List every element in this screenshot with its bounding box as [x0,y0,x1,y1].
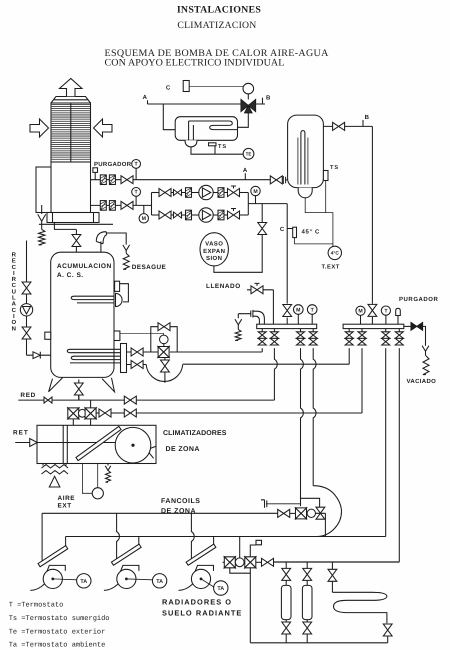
valve on supply pipe [121,176,133,184]
valve ACS primary return [131,361,143,369]
vent elbow on tank top [96,232,106,253]
svg-text:VASO: VASO [205,241,223,248]
radiator supply line [274,561,400,563]
recirculation valve lower [22,327,31,339]
AHU control pump circle [82,464,97,494]
condensate drain [107,464,109,466]
radiator group left 3-way [224,557,235,568]
sensor TS bracket on tank [323,171,328,181]
fancoil zone valve [278,509,290,517]
fancoil unit 1 supply tap [41,513,43,561]
wire down to expansion vessel [214,204,262,273]
fancoil unit 3 return tap [213,537,215,548]
thermometer T supply [135,168,137,179]
valve above manifold 1 [283,305,292,317]
fancoil unit 2 supply tap [117,513,120,561]
svg-text:VACIADO: VACIADO [407,378,437,385]
svg-text:ACUMULACION: ACUMULACION [57,263,112,270]
wire 3-way to exchanger right port [238,113,249,128]
svg-text:LLENADO: LLENADO [206,283,241,290]
electric heating element inside tank [301,131,305,185]
svg-text:E: E [12,258,16,265]
flex connector [109,201,115,211]
sensor bracket tank left [45,332,51,339]
svg-text:N: N [12,325,16,332]
svg-text:45° C: 45° C [302,229,321,236]
sensor bracket tank right with control wire to ACS pump [114,331,120,341]
pipe heat pump return (lower) [91,204,152,206]
coil flange [121,344,127,373]
sensor 45C bracket [287,228,293,230]
svg-text:TA: TA [217,586,224,592]
RED mains line [18,395,137,401]
radiator group tap from return [239,537,241,559]
expansion vessel [200,233,228,266]
valve on return pipe [121,201,133,209]
svg-text:A: A [12,301,17,308]
wire tank bulb to 4C thermostat [305,198,333,247]
3-way mixing valve [241,100,256,113]
sensor 45C wire [295,238,333,244]
fancoil unit 2 return tap [138,537,140,548]
svg-text:M: M [358,309,362,315]
fancoil fan scroll [195,565,214,571]
lower DHW coil [67,349,120,363]
pump P1 [199,185,213,199]
svg-text:C: C [166,84,171,91]
svg-text:SUELO RADIANTE: SUELO RADIANTE [162,608,242,617]
heat pump left compartment [36,167,51,213]
valve above manifold 2 [368,304,377,316]
radiator group pump [235,558,244,567]
svg-text:4°C: 4°C [331,251,340,257]
svg-text:AIRE: AIRE [58,495,76,502]
manifold 2 drain valve (filled) [404,325,411,327]
svg-text:TS: TS [330,165,339,171]
thermometer T on manifold 1 [311,314,313,324]
check valve on RED [44,397,52,403]
svg-text:A: A [243,167,248,174]
manifold 2 stem 1 isolation valves [183,329,350,365]
svg-text:C: C [280,226,285,233]
flex connector [100,201,106,211]
tank top outlet valve [323,125,372,127]
fancoil return line [66,536,386,538]
capped stub above [250,540,261,557]
svg-text:RET: RET [13,430,29,437]
recirculation pipe [27,241,33,356]
radiator group outlet valve [256,561,262,563]
room thermostat TA [214,581,228,595]
filter lines [63,425,67,463]
branch join vertical [248,193,287,216]
manifold 2 stem 4 isolation valves [273,329,399,562]
flex connector [100,175,106,185]
fancoil fan scroll [120,565,138,571]
circulator branch lower [152,214,160,216]
svg-text:C: C [12,282,17,289]
flex connector [109,175,115,185]
fancoil coil diagonal [111,544,141,565]
room thermostat TA [77,574,91,588]
ACS primary supply line [127,351,263,353]
exchanger lower dome [185,140,197,147]
svg-text:O: O [11,319,16,326]
radiator 2 branch [306,562,308,643]
thermometer T return [135,196,137,205]
fancoil coil diagonal [186,544,216,565]
svg-text:Ta =Termostato ambiente: Ta =Termostato ambiente [9,641,106,650]
damper triangle [49,476,60,487]
vaciado funnel [422,346,429,352]
sensor TE [243,148,254,159]
DHW plate heat exchanger [175,117,237,141]
electric backup tank [288,115,324,188]
room thermostat TA [152,574,166,588]
svg-text:CLIMATIZADORES: CLIMATIZADORES [163,430,227,437]
node B tick at tank [362,120,364,126]
valve before electric tank [270,176,282,184]
sensor line TS down [325,181,327,213]
AHU coil diagonal [76,426,121,460]
AIRE EXT damper [43,464,66,466]
thermostat 4C circle [328,246,341,259]
fancoil zone check valve [316,513,326,536]
radiator group right 3-way [245,557,256,568]
tank bottom drain valve [78,380,80,401]
motor valve M on manifold 1 [297,314,299,324]
svg-text:T.EXT: T.EXT [322,264,340,270]
llenado filling valve [247,290,273,324]
fancoil unit 1 return tap [65,537,67,548]
svg-text:RED: RED [20,392,36,399]
fancoil unit 3 supply tap [191,513,194,561]
svg-text:M: M [142,216,146,222]
manifold 1 bar [257,324,317,328]
svg-text:DE ZONA: DE ZONA [166,446,200,453]
branch split vertical [151,193,153,216]
group stubs into climatizador [73,419,90,425]
radiator 1 branch [285,562,287,643]
radiator return riser [250,573,387,643]
svg-text:TA: TA [156,579,163,585]
svg-text:L: L [12,295,16,302]
ACS charge pump [160,335,169,344]
manifold 2 stem 2 isolation valves [96,329,362,413]
svg-text:A. C. S.: A. C. S. [57,272,84,279]
svg-text:B: B [365,114,370,121]
wire A line down to exchanger left port [163,104,175,130]
unit drain funnel and siphon [41,205,43,214]
safety relief elbow [253,311,264,324]
svg-text:U: U [12,288,16,295]
valve on expansion branch [258,223,267,235]
svg-text:M: M [253,189,257,195]
upper electric heater element [71,296,114,303]
radiant floor branch valve [331,562,333,592]
thermometer T on manifold 2 [385,315,387,324]
bypass branch into check valve [301,498,320,507]
3-way valve actuator [243,83,254,94]
heater dome boss [116,293,123,306]
svg-text:B: B [266,95,271,102]
wire C line down [286,204,288,325]
relief drain funnel [235,319,242,325]
manifold 2 bar [343,324,404,328]
svg-text:TA: TA [80,579,87,585]
ACS bypass with valve [151,327,177,352]
recirculation valve upper [22,282,31,294]
ACS primary return line with dip arc [127,365,183,382]
radiant floor serpentine coil [332,592,387,623]
motor valve M below return [143,205,145,213]
svg-text:EXPAN: EXPAN [203,248,225,255]
svg-text:DESAGUE: DESAGUE [132,264,167,271]
climatizador box [37,425,156,463]
fancoil zone pump [307,509,315,517]
circulator branch upper [152,192,160,194]
svg-text:R: R [12,276,17,283]
AHU fan [115,427,151,463]
motor valve M at pump outlet [255,196,257,204]
manifold 2 stem 3 isolation valves [385,329,387,537]
ACS tank body [51,252,114,377]
3-way lower stem valve to arc [164,357,166,383]
radiant floor return valve [383,624,392,636]
manifold 1 stem 4 isolation valves [312,329,314,332]
climatizador mixing group: 3-way, pump, 3-way [68,408,79,419]
svg-text:T =Termostato: T =Termostato [9,601,64,609]
svg-text:INSTALACIONES: INSTALACIONES [177,4,262,15]
purgador stub on supply pipe [93,168,98,173]
svg-text:A: A [143,94,148,101]
RET line with arrow [15,439,133,447]
radiator group bypass [230,568,251,573]
svg-text:PURGADOR: PURGADOR [399,296,439,303]
manifold 1 stem 2 isolation valves [273,329,275,332]
fancoil loop U-bend [313,486,341,537]
recirculation pump [20,304,32,316]
svg-text:C: C [12,307,17,314]
sensor TS bracket [209,143,217,146]
svg-text:EXT: EXT [58,503,72,510]
manifold 1 stem 3 isolation valves [300,329,302,332]
capped balancing stub [266,503,301,505]
3-way valve ACS [158,347,169,358]
svg-text:Te =Termostato exterior: Te =Termostato exterior [9,627,106,636]
svg-text:SION: SION [206,255,222,262]
ground line [39,223,113,225]
check valve into ACS tank [33,352,51,359]
junction RED down to mixing group [90,400,92,407]
fancoil coil diagonal [38,546,68,567]
control line C to 3-way actuator [189,85,243,87]
svg-text:CON APOYO ELECTRICO INDIVIDUAL: CON APOYO ELECTRICO INDIVIDUAL [105,58,285,69]
motor valve M on manifold 2 [360,315,362,324]
wire B line down to manifold 2 [371,126,373,324]
desague funnel [123,245,130,251]
valve ACS primary supply [131,348,143,356]
svg-text:TS: TS [218,144,227,150]
svg-text:FANCOILS: FANCOILS [161,498,200,505]
svg-text:R: R [12,252,17,259]
pump P2 [199,208,213,222]
wire heat pump base to ACS tank top valve [54,223,76,253]
pipe heat pump supply (top) [91,179,271,181]
fancoil fan scroll [47,565,66,571]
heat pump base plinth [47,213,99,223]
node A tick on supply pipe [244,173,246,180]
tank legs [49,378,115,392]
automatic air vent purger [397,316,399,325]
valves on zone line [96,412,99,414]
air flow arrow left side [30,119,49,137]
node B tick (top) [256,98,265,104]
manifold 1 stem 1 isolation valves [261,329,263,352]
svg-text:C: C [12,264,17,271]
valve on ACS cold feed [72,235,81,247]
exchanger internal coil [189,121,238,140]
svg-text:CLIMATIZACION: CLIMATIZACION [177,20,256,31]
vent line to drain [107,233,127,245]
heat pump outdoor unit coil (hatched box) [51,97,91,163]
tank lower bulb [298,188,312,198]
air flow arrow right side [94,119,113,137]
svg-text:TE: TE [246,152,252,157]
svg-text:PURGADOR: PURGADOR [94,161,132,168]
svg-text:Ts =Termostato sumergido: Ts =Termostato sumergido [9,614,110,623]
heat pump body [51,162,91,213]
flange to tank [283,176,287,184]
fancoil supply line [42,512,278,514]
heater bracket and wire [115,281,120,291]
valve on RED branch [124,396,136,404]
sensor line to TE [191,147,243,154]
fancoil zone 3-way valve [296,508,307,519]
svg-text:M: M [296,307,300,313]
svg-text:RADIADORES O: RADIADORES O [162,597,232,606]
air flow arrow up [60,79,83,97]
